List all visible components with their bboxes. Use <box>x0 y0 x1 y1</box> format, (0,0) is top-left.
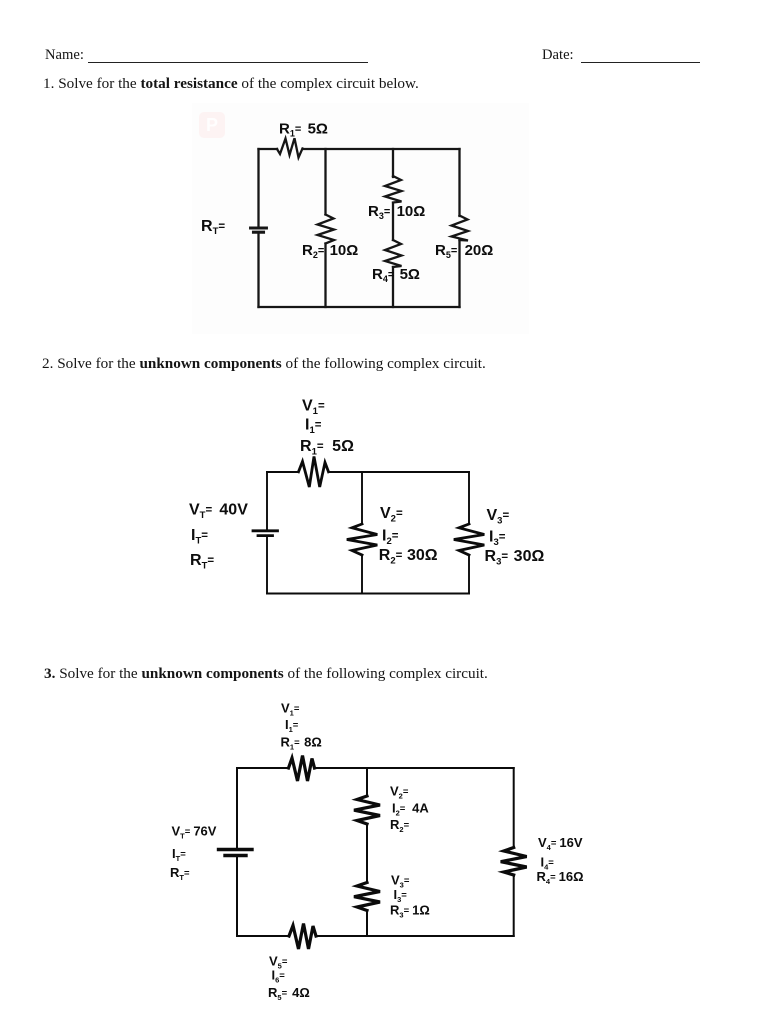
svg-text:R1=5Ω: R1=5Ω <box>279 121 328 139</box>
svg-text:I2=4A: I2=4A <box>392 801 429 818</box>
svg-text:V1=: V1= <box>302 398 325 418</box>
svg-text:R3=10Ω: R3=10Ω <box>368 203 425 221</box>
svg-text:R4=5Ω: R4=5Ω <box>372 266 420 284</box>
svg-text:I3=: I3= <box>489 529 506 549</box>
svg-text:R5=20Ω: R5=20Ω <box>435 242 493 260</box>
svg-text:I3=: I3= <box>394 887 408 904</box>
svg-text:R5=4Ω: R5=4Ω <box>268 985 310 1002</box>
svg-text:R2=10Ω: R2=10Ω <box>302 242 358 260</box>
svg-text:V1=: V1= <box>281 701 300 718</box>
svg-text:VT=76V: VT=76V <box>172 824 217 841</box>
svg-text:R1=5Ω: R1=5Ω <box>300 438 354 458</box>
svg-text:RT=: RT= <box>201 218 225 237</box>
svg-text:R2=30Ω: R2=30Ω <box>379 547 438 567</box>
svg-text:I1=: I1= <box>305 417 322 437</box>
svg-text:V2=: V2= <box>380 505 403 525</box>
svg-text:R3=1Ω: R3=1Ω <box>390 903 430 920</box>
svg-text:RT=: RT= <box>170 865 190 882</box>
svg-text:I2=: I2= <box>382 528 399 548</box>
svg-text:IT=: IT= <box>172 846 186 863</box>
svg-text:R4=16Ω: R4=16Ω <box>537 869 584 886</box>
svg-text:R3=30Ω: R3=30Ω <box>485 548 545 568</box>
svg-text:R2=: R2= <box>390 817 410 834</box>
svg-text:VT=40V: VT=40V <box>189 502 248 522</box>
svg-text:IT=: IT= <box>191 527 208 547</box>
svg-text:I6=: I6= <box>272 968 286 985</box>
svg-text:V2=: V2= <box>390 784 409 801</box>
svg-text:RT=: RT= <box>190 552 214 572</box>
svg-text:I1=: I1= <box>285 717 299 734</box>
svg-text:V3=: V3= <box>487 507 510 527</box>
svg-text:V4=16V: V4=16V <box>538 835 583 852</box>
svg-text:R1=8Ω: R1=8Ω <box>281 735 322 752</box>
